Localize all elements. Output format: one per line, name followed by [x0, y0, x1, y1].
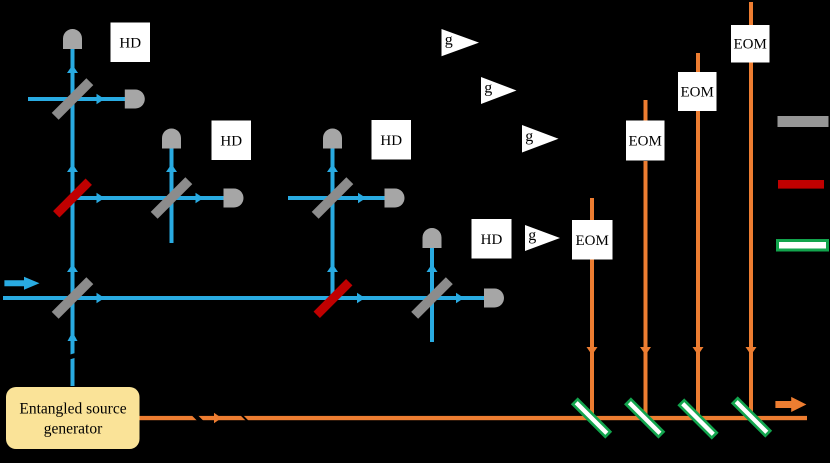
arrow up above BS4 — [427, 264, 438, 272]
break mark on vertical beam — [67, 352, 80, 360]
arrow down on EOM2 line — [693, 347, 704, 355]
wire: orange feed line EOM2 — [696, 53, 700, 418]
break mark on orange beam — [191, 411, 204, 424]
beam splitter BS0 — [52, 277, 94, 319]
arrow right after mirror R1 — [97, 193, 105, 204]
arrow down on EOM4 line — [587, 347, 598, 355]
arrow up below BS0 — [68, 332, 78, 341]
wire: BS4 vertical line — [430, 248, 434, 342]
entangled source generator box — [6, 387, 140, 449]
label box HD1 — [111, 23, 151, 63]
arrow up above BS3 — [327, 164, 338, 172]
wire: row-2 horizontal blue beam y=198 (mirror1 to HD2 dome) — [73, 196, 225, 200]
arrow right after BS3 — [358, 193, 366, 204]
wire: main horizontal orange beam y=418 — [140, 416, 808, 420]
label box EOM2 — [678, 72, 717, 111]
detector dome right, station 3 — [385, 189, 405, 208]
detector dome up, station 2 — [162, 129, 181, 149]
svg-text:g: g — [484, 80, 492, 97]
wire: BS3 input stub y=198 — [288, 196, 385, 200]
arrow right on orange beam — [214, 413, 222, 424]
wire: orange feed line EOM3 — [644, 100, 648, 418]
label box EOM3 — [626, 121, 665, 161]
input thick blue arrow — [4, 277, 39, 290]
beam splitter BS2 — [151, 177, 193, 219]
svg-text:HD: HD — [220, 134, 242, 150]
detector dome right, station 2 — [224, 189, 244, 208]
arrow up above BS1 — [67, 65, 78, 73]
red mirror R1 — [53, 179, 92, 218]
label box HD4 — [472, 219, 512, 259]
beam splitter BS1 — [52, 78, 94, 120]
label box EOM4 — [572, 220, 613, 260]
wire: main horizontal blue beam y=298 — [3, 296, 485, 300]
legend gray bar — [778, 116, 829, 127]
arrow right after BS2 — [196, 193, 204, 204]
green mirror G4 — [733, 398, 770, 435]
arrow right after BS0 — [97, 293, 105, 304]
detector dome up, station 3 — [323, 129, 342, 149]
arrow down on EOM3 line — [640, 347, 651, 355]
svg-text:g: g — [525, 128, 533, 145]
svg-text:g: g — [445, 32, 453, 49]
arrow up above mirror R1 — [67, 164, 78, 172]
svg-text:HD: HD — [119, 36, 141, 52]
green mirror G3 — [679, 400, 716, 437]
wire: orange feed line EOM1 — [749, 2, 753, 418]
legend green mirror bar — [778, 241, 828, 251]
svg-text:HD: HD — [481, 232, 503, 248]
beam splitter BS3 — [312, 177, 354, 219]
amplifier g2 — [481, 77, 517, 104]
amplifier g1 — [442, 29, 480, 56]
arrow right after mirror R2 — [357, 293, 365, 304]
svg-text:EOM: EOM — [734, 37, 767, 53]
beam splitter BS4 — [411, 277, 453, 319]
arrow up above BS2 — [166, 164, 177, 172]
green mirror G2 — [626, 399, 663, 436]
wire: orange feed line EOM4 — [590, 198, 594, 418]
detector dome up, station 4 — [423, 228, 442, 248]
label box EOM1 — [731, 25, 770, 63]
arrow up above mirror R2 — [327, 264, 338, 272]
svg-text:generator: generator — [44, 420, 103, 437]
notch mark on orange beam — [241, 414, 249, 422]
detector dome right, station 1 — [125, 90, 145, 109]
wire: BS3 vertical line (mirror2 up to dome) — [331, 148, 335, 298]
green mirror G1 — [573, 399, 610, 436]
legend red bar — [778, 180, 824, 189]
svg-text:EOM: EOM — [629, 134, 662, 150]
detector dome up, station 1 — [63, 29, 82, 49]
arrow down on EOM1 line — [746, 347, 757, 355]
svg-text:EOM: EOM — [681, 85, 714, 101]
amplifier g3 — [522, 125, 559, 153]
arrow right after BS1 — [97, 94, 105, 105]
wire: BS2 vertical line — [170, 148, 174, 243]
wire: row-1 horizontal blue beam y=99 (BS1 line) — [28, 97, 125, 101]
label box HD3 — [372, 120, 412, 160]
svg-text:g: g — [528, 227, 536, 244]
wire: main vertical blue beam x=72.5 (source to detector) — [71, 48, 75, 386]
svg-text:EOM: EOM — [576, 233, 609, 249]
detector dome right, station 4 — [484, 289, 504, 308]
amplifier g4 — [525, 225, 560, 251]
red mirror R2 — [314, 279, 353, 318]
arrow up above BS0 — [67, 264, 78, 272]
label box HD2 — [212, 121, 252, 161]
arrow right after BS4 — [456, 293, 464, 304]
svg-text:HD: HD — [380, 133, 402, 149]
svg-text:Entangled source: Entangled source — [19, 400, 126, 417]
output thick orange arrow — [775, 397, 806, 412]
